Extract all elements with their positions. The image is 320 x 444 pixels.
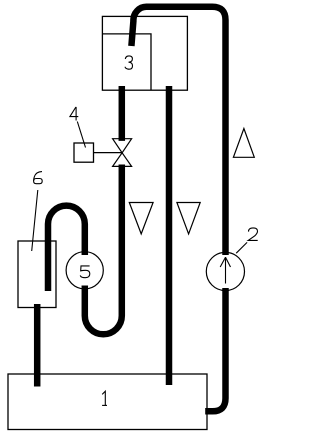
- flow arrow: down triangle left: [129, 203, 153, 234]
- label 6: [34, 172, 43, 184]
- wire: thick pipe from box 6 bottom down into box 1: [34, 304, 41, 387]
- label 1: [102, 391, 107, 405]
- label 2: [248, 228, 258, 241]
- flow arrow: up triangle right side: [233, 129, 254, 158]
- wire: thick pipe from box 3 right compartment down into box 1: [166, 86, 173, 385]
- arrow inside pump 2: [225, 257, 227, 283]
- wire: thick pipe from box 3 bottom down to valve top: [119, 86, 126, 141]
- gauge 5 (circle): [66, 252, 103, 289]
- wire: valve stem to box 4: [94, 152, 123, 154]
- wire: thick pipe from inner box of 3 up over the top and down to pump 2: [131, 7, 225, 255]
- wire: thick pipe from valve bottom down, U-turn, up to gauge 5 bottom: [85, 165, 122, 335]
- label 4: [70, 107, 78, 121]
- valve (bowtie) on left pipe: [113, 139, 132, 153]
- leader line for label 2: [236, 242, 247, 253]
- box 6 (separator): [18, 241, 56, 308]
- label 3: [125, 56, 133, 69]
- flow arrow: down triangle right: [177, 203, 200, 234]
- box 4 (valve actuator): [74, 143, 94, 162]
- pump 2 (circle with up arrow): [206, 252, 244, 290]
- box 3 inner compartment divider: [102, 34, 151, 90]
- wire: thick pipe from pump 2 down, curving left into right side of box 1: [205, 288, 225, 411]
- leader line for label 4: [77, 122, 85, 148]
- wire: thick pipe from gauge 5 top, n-turn, down into box 6 (dip tube): [48, 206, 85, 291]
- box 1 (bottom tank): [8, 374, 207, 430]
- leader line for label 6: [32, 190, 38, 251]
- label 5: [80, 266, 90, 278]
- box 3 (top vessel, outer): [102, 16, 187, 90]
